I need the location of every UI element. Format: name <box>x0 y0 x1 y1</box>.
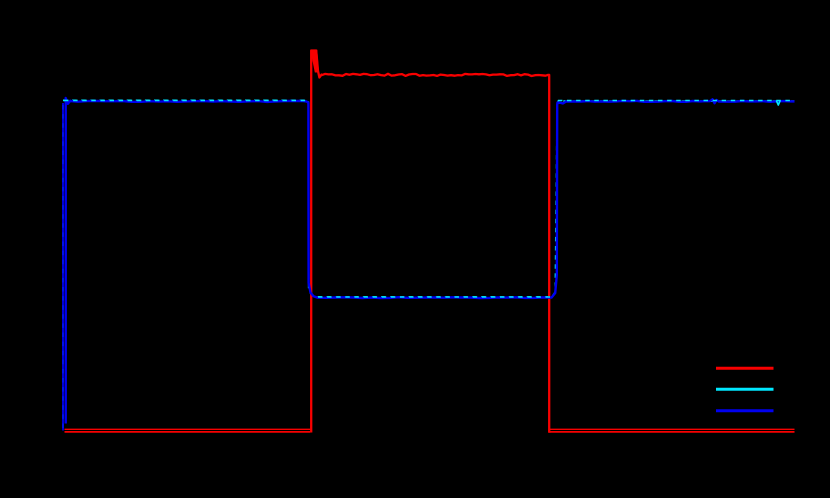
red trace low-left upper line <box>65 428 311 430</box>
red trace low-right lower line <box>549 431 794 433</box>
red trace overshoot spike fill <box>310 50 319 73</box>
cyan dashed fit overlay on right high segment <box>558 100 795 102</box>
blue trace main (high, fall, low, rise, high) <box>66 98 795 424</box>
cyan fit glitch dip near right end <box>776 101 780 105</box>
legend cyan line <box>716 388 774 391</box>
cyan dashed fit overlay on low segment <box>318 296 552 298</box>
cyan model fit trace underlayer <box>63 100 795 428</box>
legend red line <box>716 367 774 370</box>
red trace main (rise, overshoot spike, noisy high level, fall) <box>311 51 549 433</box>
red trace low-right upper line <box>549 428 794 430</box>
blue trace left rise vertical <box>62 103 64 431</box>
red trace low-left lower line <box>65 431 311 433</box>
cyan dashed fit overlay on left high segment <box>64 99 307 101</box>
legend blue line <box>716 409 774 412</box>
